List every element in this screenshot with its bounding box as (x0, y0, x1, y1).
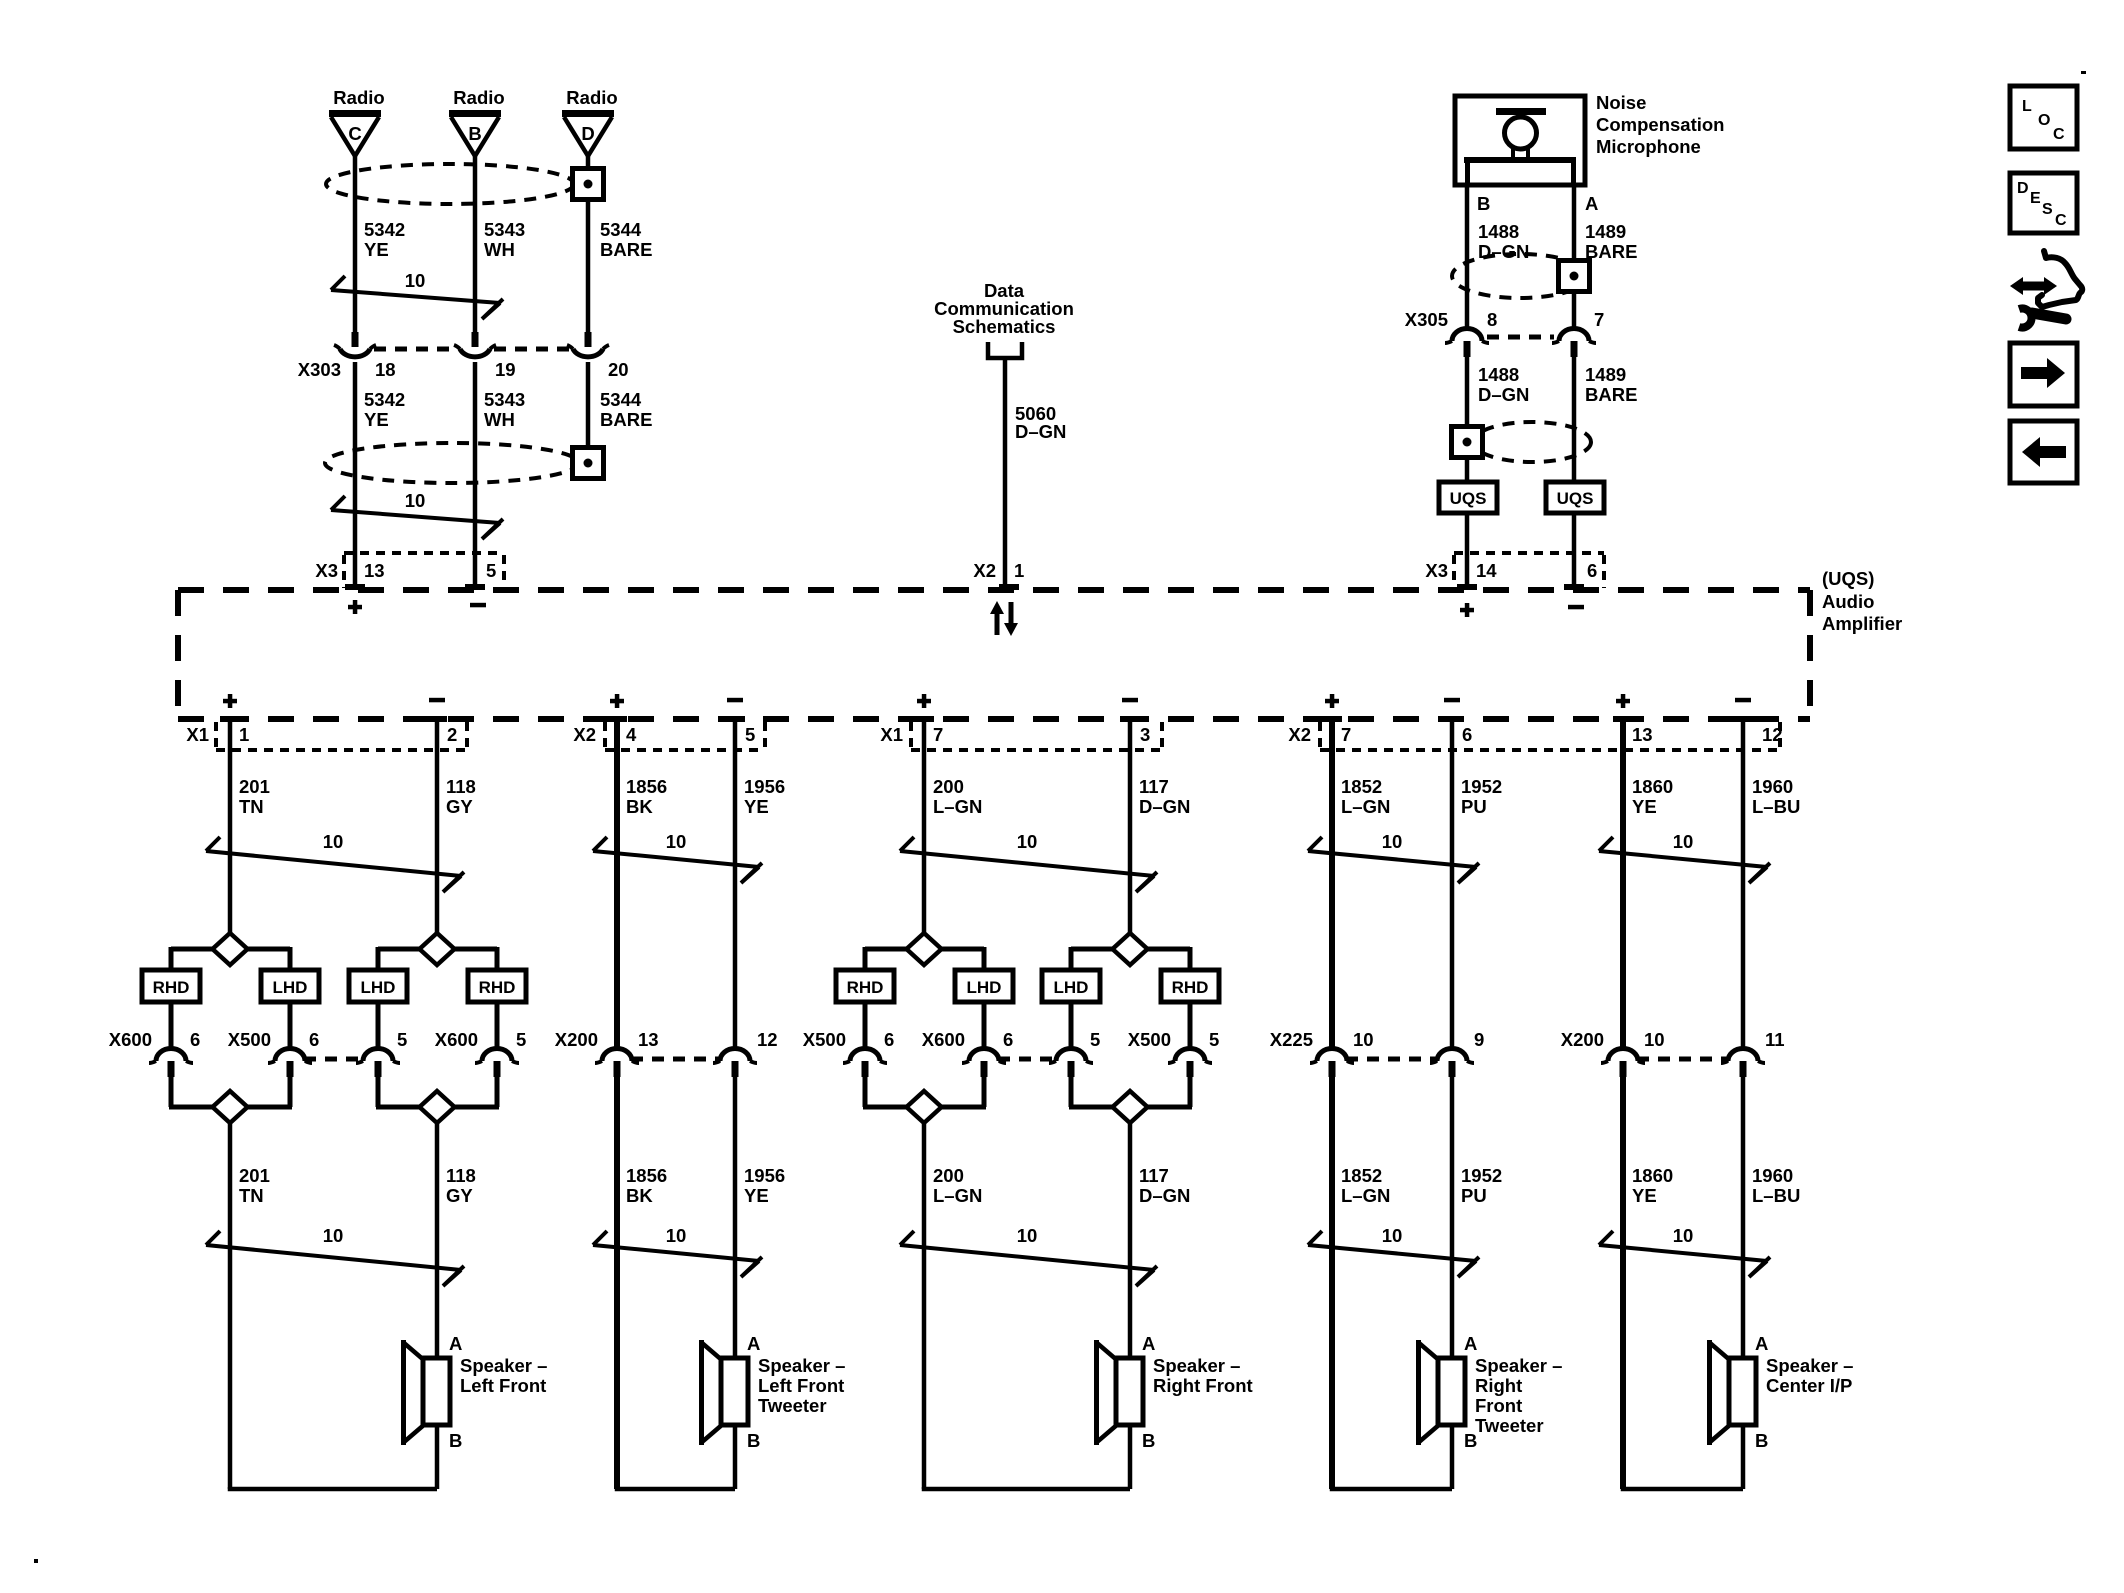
label 5343 WH (lower) (484, 389, 525, 430)
svg-text:Radio: Radio (453, 87, 504, 108)
label 1488 D-GN (upper) (1478, 221, 1529, 262)
output pair 5: amp connector dotted box (1320, 722, 1780, 750)
svg-text:A: A (1585, 193, 1598, 214)
svg-text:A: A (747, 1333, 760, 1354)
harness option slash 10 (pair 1 lower) (206, 1225, 464, 1286)
output pair 3: connector labels X1 pins 7 3 (880, 724, 1150, 745)
svg-text:YE: YE (1632, 1185, 1657, 1206)
svg-text:6: 6 (309, 1029, 319, 1050)
connector dashed link pair 3 (998, 1057, 1057, 1062)
svg-text:X2: X2 (573, 724, 596, 745)
label 118 GY (lower) (446, 1165, 476, 1206)
label 1852 L–GN (upper) (1341, 776, 1390, 817)
svg-text:19: 19 (495, 359, 516, 380)
wire 201 lower segment from diamond (228, 1124, 233, 1489)
svg-text:1956: 1956 (744, 776, 785, 797)
wire 1488 D-GN upper (mic B to X305-8) (1465, 185, 1470, 328)
wire 1956 lower segment (733, 1077, 738, 1360)
svg-text:BARE: BARE (600, 409, 652, 430)
svg-text:Left Front: Left Front (460, 1375, 546, 1396)
connector X305 dashed link (1487, 335, 1554, 340)
svg-text:X3: X3 (315, 560, 338, 581)
svg-text:Speaker –: Speaker – (758, 1355, 845, 1376)
svg-text:X1: X1 (186, 724, 209, 745)
svg-text:B: B (449, 1430, 462, 1451)
connector X3 (mic input) dotted box (1454, 553, 1604, 588)
svg-text:10: 10 (1382, 831, 1403, 852)
label 5343 WH (upper) (484, 219, 525, 260)
svg-text:1488: 1488 (1478, 221, 1519, 242)
output pair 4: wire 1852 L–GN upper segment (1329, 722, 1335, 1048)
icon wire repair (squiggle, double arrow, wrench) (2010, 251, 2082, 328)
output pair 3: polarity + on pin 7 (917, 694, 931, 708)
svg-text:10: 10 (1017, 831, 1038, 852)
scan speck bottom left (34, 1559, 38, 1563)
icon LOC box (2010, 86, 2077, 149)
shielded cable ellipse (lower mic) (1473, 422, 1591, 462)
svg-text:PU: PU (1461, 1185, 1487, 1206)
label X3 pins 14 6 (1425, 560, 1597, 581)
twisted/shielded cable ellipse (lower radio) (325, 443, 579, 483)
label (UQS) Audio Amplifier (1822, 568, 1902, 634)
svg-text:5343: 5343 (484, 219, 525, 240)
connector dashed link pair 2 (631, 1057, 721, 1062)
component Noise Compensation Microphone box (1455, 96, 1585, 185)
branch wires boxes to connectors (wire 924) (865, 1002, 984, 1048)
label X3 pins 13 5 (315, 560, 496, 581)
option box RHD (wire 437) (468, 970, 526, 1002)
svg-text:X500: X500 (803, 1029, 846, 1050)
label 1956 YE (upper) (744, 776, 785, 817)
svg-text:5342: 5342 (364, 219, 405, 240)
svg-text:TN: TN (239, 1185, 264, 1206)
label 1856 BK (upper) (626, 776, 667, 817)
inline connector X200 pin 13 (wire 617) (595, 1049, 639, 1078)
svg-text:1952: 1952 (1461, 776, 1502, 797)
terminal bar X3-6 (1564, 584, 1584, 590)
svg-text:200: 200 (933, 1165, 964, 1186)
label 1956 YE (lower) (744, 1165, 785, 1206)
svg-text:Radio: Radio (333, 87, 384, 108)
label 1952 PU (lower) (1461, 1165, 1502, 1206)
svg-text:D–GN: D–GN (1478, 384, 1529, 405)
svg-text:B: B (1477, 193, 1490, 214)
output pair 3: wire 200 L–GN upper segment (922, 722, 927, 933)
svg-text:LHD: LHD (1054, 978, 1089, 997)
svg-text:1960: 1960 (1752, 776, 1793, 797)
svg-text:10: 10 (1017, 1225, 1038, 1246)
svg-text:RHD: RHD (1172, 978, 1209, 997)
svg-text:PU: PU (1461, 796, 1487, 817)
svg-text:12: 12 (757, 1029, 778, 1050)
option box LHD (wire 437) (349, 970, 407, 1002)
wire 5342 YE lower segment (X303 to X3-13) (353, 362, 358, 584)
antenna Radio B (449, 87, 505, 156)
svg-text:6: 6 (884, 1029, 894, 1050)
output pair 2: amp connector dotted box (605, 722, 765, 750)
svg-text:X200: X200 (1561, 1029, 1604, 1050)
svg-text:BARE: BARE (1585, 241, 1637, 262)
svg-text:E: E (2030, 190, 2041, 207)
label 1960 L–BU (lower) (1752, 1165, 1800, 1206)
svg-text:L–BU: L–BU (1752, 796, 1800, 817)
svg-text:GY: GY (446, 796, 473, 817)
svg-text:6: 6 (1003, 1029, 1013, 1050)
connector X303 dashed link (374, 347, 569, 352)
svg-text:5344: 5344 (600, 219, 642, 240)
branch wires boxes to connectors (wire 1130) (1071, 1002, 1190, 1048)
svg-text:UQS: UQS (1557, 489, 1594, 508)
svg-text:S: S (2042, 201, 2053, 218)
svg-text:10: 10 (666, 831, 687, 852)
terminal bar X3-14 (1457, 584, 1477, 590)
shield drain ground box on 1489 (upper) (1559, 261, 1590, 292)
wire 5060 D-GN (serial data to X2-1) (1003, 358, 1008, 584)
routing diamond upper (wire 1130) (1113, 933, 1148, 965)
svg-text:Right: Right (1475, 1375, 1522, 1396)
connector X303 pin 19 (454, 332, 496, 357)
option box RHD (wire 230) (142, 970, 200, 1002)
svg-text:BK: BK (626, 1185, 653, 1206)
harness option slash 10 (pair 3 lower) (900, 1225, 1157, 1286)
svg-text:L–GN: L–GN (933, 796, 982, 817)
svg-text:13: 13 (364, 560, 385, 581)
shield drain ground box on 1488 (lower) (1452, 427, 1483, 458)
svg-text:YE: YE (744, 796, 769, 817)
output pair 3: polarity - on pin 3 (1122, 698, 1138, 703)
twisted/shielded cable ellipse (upper radio) (326, 164, 574, 204)
svg-text:7: 7 (933, 724, 943, 745)
svg-text:Center I/P: Center I/P (1766, 1375, 1852, 1396)
wire 5343 WH lower segment (X303 to X3-5) (473, 362, 478, 584)
icon DESC box (2010, 173, 2077, 233)
svg-text:1860: 1860 (1632, 776, 1673, 797)
svg-text:D–GN: D–GN (1139, 796, 1190, 817)
svg-text:1489: 1489 (1585, 364, 1626, 385)
svg-text:5344: 5344 (600, 389, 642, 410)
option box LHD (wire 1130) (1042, 970, 1100, 1002)
svg-text:B: B (1755, 1430, 1768, 1451)
svg-text:D: D (581, 123, 594, 144)
output pair 1: terminal bars at amp connector (220, 716, 447, 722)
svg-text:1852: 1852 (1341, 1165, 1382, 1186)
svg-text:10: 10 (1673, 831, 1694, 852)
harness option slash 10 (pair 5 lower) (1599, 1225, 1770, 1277)
polarity - at X3-6 (1568, 605, 1584, 610)
svg-text:Left Front: Left Front (758, 1375, 844, 1396)
svg-text:10: 10 (1382, 1225, 1403, 1246)
label 117 D–GN (lower) (1139, 1165, 1190, 1206)
output pair 4: polarity + on pin 7 (1325, 694, 1339, 708)
output pair 5: polarity - on pin 12 (1735, 698, 1751, 703)
wire 1960 lower segment (1741, 1077, 1746, 1360)
inline connector X225 pin 10 (wire 1332) (1310, 1049, 1354, 1078)
svg-text:A: A (1142, 1333, 1155, 1354)
svg-text:13: 13 (1632, 724, 1653, 745)
svg-text:1856: 1856 (626, 1165, 667, 1186)
inline connector pin 11 (wire 1743) (1721, 1049, 1765, 1078)
terminal bar X2-1 (999, 584, 1019, 590)
output pair 2: wire 1856 BK upper segment (614, 722, 620, 1048)
svg-text:X2: X2 (1288, 724, 1311, 745)
svg-text:C: C (2053, 126, 2065, 143)
harness option slash 10 (pair 4 upper) (1308, 831, 1479, 883)
svg-text:LHD: LHD (273, 978, 308, 997)
return wire loop (pair 5) (1623, 1425, 1743, 1489)
output pair 5: terminal bars at amp connector (1613, 716, 1753, 722)
routing diamond lower (wire 1130) (1113, 1091, 1148, 1123)
speaker terminal A (pair 5) (1755, 1333, 1768, 1354)
speaker Left Front Tweeter (pair 2) (699, 1340, 748, 1445)
label 1489 BARE (upper) (1585, 221, 1637, 262)
label mic terminal B (1477, 193, 1490, 214)
branch wires connectors to lower diamond (wire 1130) (1069, 1077, 1192, 1107)
harness option slash 10 (pair 3 upper) (900, 831, 1157, 892)
speaker terminal B (pair 4) (1464, 1430, 1477, 1451)
svg-text:8: 8 (1487, 309, 1497, 330)
svg-text:20: 20 (608, 359, 629, 380)
wire 1489 BARE upper (mic A to X305-7) (1572, 185, 1577, 328)
branch connectors (wire 1130) (1049, 1049, 1212, 1078)
speaker Right Front Tweeter (pair 4) (1416, 1340, 1465, 1445)
label 200 L–GN (upper) (933, 776, 982, 817)
routing diamond upper (wire 924) (907, 933, 942, 965)
svg-text:X225: X225 (1270, 1029, 1313, 1050)
svg-text:YE: YE (364, 239, 389, 260)
svg-text:BARE: BARE (1585, 384, 1637, 405)
svg-text:Speaker –: Speaker – (1766, 1355, 1853, 1376)
svg-text:1956: 1956 (744, 1165, 785, 1186)
label X2 pin 1 (973, 560, 1024, 581)
option box UQS left (1439, 482, 1497, 513)
harness option slash 10 (pair 5 upper) (1599, 831, 1770, 883)
svg-text:YE: YE (744, 1185, 769, 1206)
label 1856 BK (lower) (626, 1165, 667, 1206)
svg-text:10: 10 (323, 831, 344, 852)
return wire loop (pair 2) (617, 1425, 735, 1489)
svg-text:C: C (2055, 212, 2067, 229)
label speaker name (pair 3) (1153, 1355, 1253, 1396)
svg-text:5: 5 (745, 724, 755, 745)
svg-text:BARE: BARE (600, 239, 652, 260)
speaker terminal B (pair 3) (1142, 1430, 1155, 1451)
svg-text:200: 200 (933, 776, 964, 797)
svg-text:B: B (747, 1430, 760, 1451)
harness option slash 10 (pair 2 lower) (593, 1225, 762, 1277)
svg-text:10: 10 (405, 490, 426, 511)
svg-text:Schematics: Schematics (953, 316, 1056, 337)
svg-text:Noise: Noise (1596, 92, 1646, 113)
svg-text:Tweeter: Tweeter (758, 1395, 827, 1416)
svg-text:X1: X1 (880, 724, 903, 745)
label Noise Compensation Microphone (1596, 92, 1724, 157)
wire 200 lower segment from diamond (922, 1124, 927, 1489)
label 1860 YE (lower) (1632, 1165, 1673, 1206)
option box RHD (wire 1130) (1161, 970, 1219, 1002)
label 200 L–GN (lower) (933, 1165, 982, 1206)
wire 5342 YE upper segment (antenna C to X303-18) (353, 156, 358, 332)
connector dashed link pair 1 (304, 1057, 364, 1062)
wire 5344 BARE lower segment (X303 to shield ground) (586, 362, 591, 448)
output pair 1: polarity + on pin 1 (223, 694, 237, 708)
return wire loop (pair 4) (1332, 1425, 1452, 1489)
speaker Center I/P (pair 5) (1707, 1340, 1756, 1445)
svg-text:L–GN: L–GN (1341, 796, 1390, 817)
connector dashed link pair 4 (1346, 1057, 1438, 1062)
svg-text:1960: 1960 (1752, 1165, 1793, 1186)
output pair 5: wire 1960 L–BU upper segment (1741, 722, 1746, 1048)
inline connector pin 12 (wire 735) (713, 1049, 757, 1078)
label 1852 L–GN (lower) (1341, 1165, 1390, 1206)
svg-text:Amplifier: Amplifier (1822, 613, 1902, 634)
svg-text:A: A (1755, 1333, 1768, 1354)
polarity + at X3-14 (1460, 603, 1474, 617)
svg-text:B: B (468, 123, 481, 144)
label 5342 YE (upper) (364, 219, 405, 260)
wire 1952 lower segment (1450, 1077, 1455, 1360)
svg-text:(UQS): (UQS) (1822, 568, 1874, 589)
speaker Left Front (pair 1) (401, 1340, 450, 1445)
routing diamond upper (wire 437) (420, 933, 455, 965)
polarity - at X3-5 (470, 603, 486, 608)
label 201 TN (upper) (239, 776, 270, 817)
svg-text:10: 10 (666, 1225, 687, 1246)
routing diamond lower (wire 924) (907, 1091, 942, 1123)
bidirectional data arrows (990, 601, 1018, 636)
routing diamond upper (wire 230) (213, 933, 248, 965)
speaker terminal A (pair 3) (1142, 1333, 1155, 1354)
label 1489 BARE (lower) (1585, 364, 1637, 405)
branch wiring to LHD/RHD boxes (wire 1130) (1071, 947, 1190, 970)
branch wiring to RHD/LHD boxes (wire 230) (171, 947, 290, 970)
svg-text:10: 10 (405, 270, 426, 291)
label speaker name (pair 4) (1475, 1355, 1562, 1436)
wire 5344 BARE upper segment (antenna D to X303-20) (586, 156, 591, 332)
output pair 2: polarity - on pin 5 (727, 698, 743, 703)
svg-text:10: 10 (323, 1225, 344, 1246)
svg-text:10: 10 (1644, 1029, 1665, 1050)
svg-text:A: A (449, 1333, 462, 1354)
shielded cable ellipse (upper mic) (1452, 254, 1588, 298)
inline connector pin 9 (wire 1452) (1430, 1049, 1474, 1078)
output pair 1: polarity - on pin 2 (429, 698, 445, 703)
svg-text:1852: 1852 (1341, 776, 1382, 797)
label 118 GY (upper) (446, 776, 476, 817)
svg-text:5: 5 (1209, 1029, 1219, 1050)
speaker terminal B (pair 2) (747, 1430, 760, 1451)
svg-text:6: 6 (1587, 560, 1597, 581)
connector X303 pin 20 (567, 332, 609, 357)
svg-text:118: 118 (446, 776, 476, 797)
svg-text:9: 9 (1474, 1029, 1484, 1050)
svg-text:Speaker –: Speaker – (1153, 1355, 1240, 1376)
svg-text:1: 1 (1014, 560, 1024, 581)
svg-text:5: 5 (486, 560, 496, 581)
label 201 TN (lower) (239, 1165, 270, 1206)
svg-text:RHD: RHD (847, 978, 884, 997)
branch connectors (wire 924) (843, 1049, 1006, 1078)
branch wires boxes to connectors (wire 230) (171, 1002, 290, 1048)
harness option slash 10 (pair 1 upper) (206, 831, 464, 892)
label 5060 D-GN (1015, 403, 1066, 442)
svg-text:X500: X500 (1128, 1029, 1171, 1050)
svg-text:A: A (1464, 1333, 1477, 1354)
output pair 5: connector labels pins 13 12 (1632, 724, 1783, 745)
label 1952 PU (upper) (1461, 776, 1502, 817)
terminal bar X3-13 (345, 584, 365, 590)
output pair 1: wire 201 TN upper segment (228, 722, 233, 933)
connector row labels pair 5 (1561, 1029, 1785, 1050)
svg-text:5: 5 (1090, 1029, 1100, 1050)
svg-text:Microphone: Microphone (1596, 136, 1701, 157)
svg-text:118: 118 (446, 1165, 476, 1186)
svg-text:WH: WH (484, 239, 515, 260)
wire 118 lower segment from diamond (435, 1124, 440, 1360)
svg-text:1488: 1488 (1478, 364, 1519, 385)
svg-text:Speaker –: Speaker – (1475, 1355, 1562, 1376)
svg-text:X600: X600 (435, 1029, 478, 1050)
harness option slash 10 (lower radio) (331, 490, 503, 539)
svg-text:5342: 5342 (364, 389, 405, 410)
svg-text:GY: GY (446, 1185, 473, 1206)
speaker terminal A (pair 4) (1464, 1333, 1477, 1354)
svg-text:X200: X200 (555, 1029, 598, 1050)
svg-text:117: 117 (1139, 776, 1169, 797)
svg-text:1: 1 (239, 724, 249, 745)
speaker terminal B (pair 5) (1755, 1430, 1768, 1451)
shield drain ground box on 5344 (upper) (573, 169, 604, 200)
node Data Communication Schematics (934, 280, 1074, 358)
harness option slash 10 (pair 2 upper) (593, 831, 762, 883)
label speaker name (pair 2) (758, 1355, 845, 1416)
output pair 4: connector labels X2 pins 7 6 (1288, 724, 1472, 745)
harness option slash 10 (upper radio) (331, 270, 503, 319)
branch connectors (wire 437) (356, 1049, 519, 1078)
output pair 3: terminal bars at amp connector (914, 716, 1140, 722)
svg-text:LHD: LHD (967, 978, 1002, 997)
terminal bar X3-5 (465, 584, 485, 590)
svg-text:D: D (2017, 180, 2029, 197)
antenna Radio C (329, 87, 385, 156)
scan speck top right (2081, 71, 2086, 74)
output pair 1: wire 118 GY upper segment (435, 722, 440, 933)
svg-text:Front: Front (1475, 1395, 1522, 1416)
connector X303 pin 18 (334, 332, 376, 357)
output pair 1: connector labels X1 pins 1 2 (186, 724, 457, 745)
speaker terminal A (pair 2) (747, 1333, 760, 1354)
output pair 3: wire 117 D–GN upper segment (1128, 722, 1133, 933)
label 5344 BARE (lower) (600, 389, 652, 430)
svg-text:6: 6 (1462, 724, 1472, 745)
output pair 2: wire 1956 YE upper segment (733, 722, 738, 1048)
output pair 5: polarity + on pin 13 (1616, 694, 1630, 708)
speaker terminal A (pair 1) (449, 1333, 462, 1354)
branch wires connectors to lower diamond (wire 437) (376, 1077, 499, 1107)
branch wires connectors to lower diamond (wire 924) (863, 1077, 986, 1107)
wire 1860 lower segment (1620, 1077, 1626, 1489)
svg-text:RHD: RHD (153, 978, 190, 997)
svg-text:YE: YE (364, 409, 389, 430)
branch wires boxes to connectors (wire 437) (378, 1002, 497, 1048)
svg-text:YE: YE (1632, 796, 1657, 817)
svg-text:1860: 1860 (1632, 1165, 1673, 1186)
svg-text:11: 11 (1765, 1029, 1785, 1050)
svg-text:X600: X600 (109, 1029, 152, 1050)
svg-text:X3: X3 (1425, 560, 1448, 581)
svg-text:D–GN: D–GN (1015, 421, 1066, 442)
label speaker name (pair 1) (460, 1355, 547, 1396)
svg-text:2: 2 (447, 724, 457, 745)
